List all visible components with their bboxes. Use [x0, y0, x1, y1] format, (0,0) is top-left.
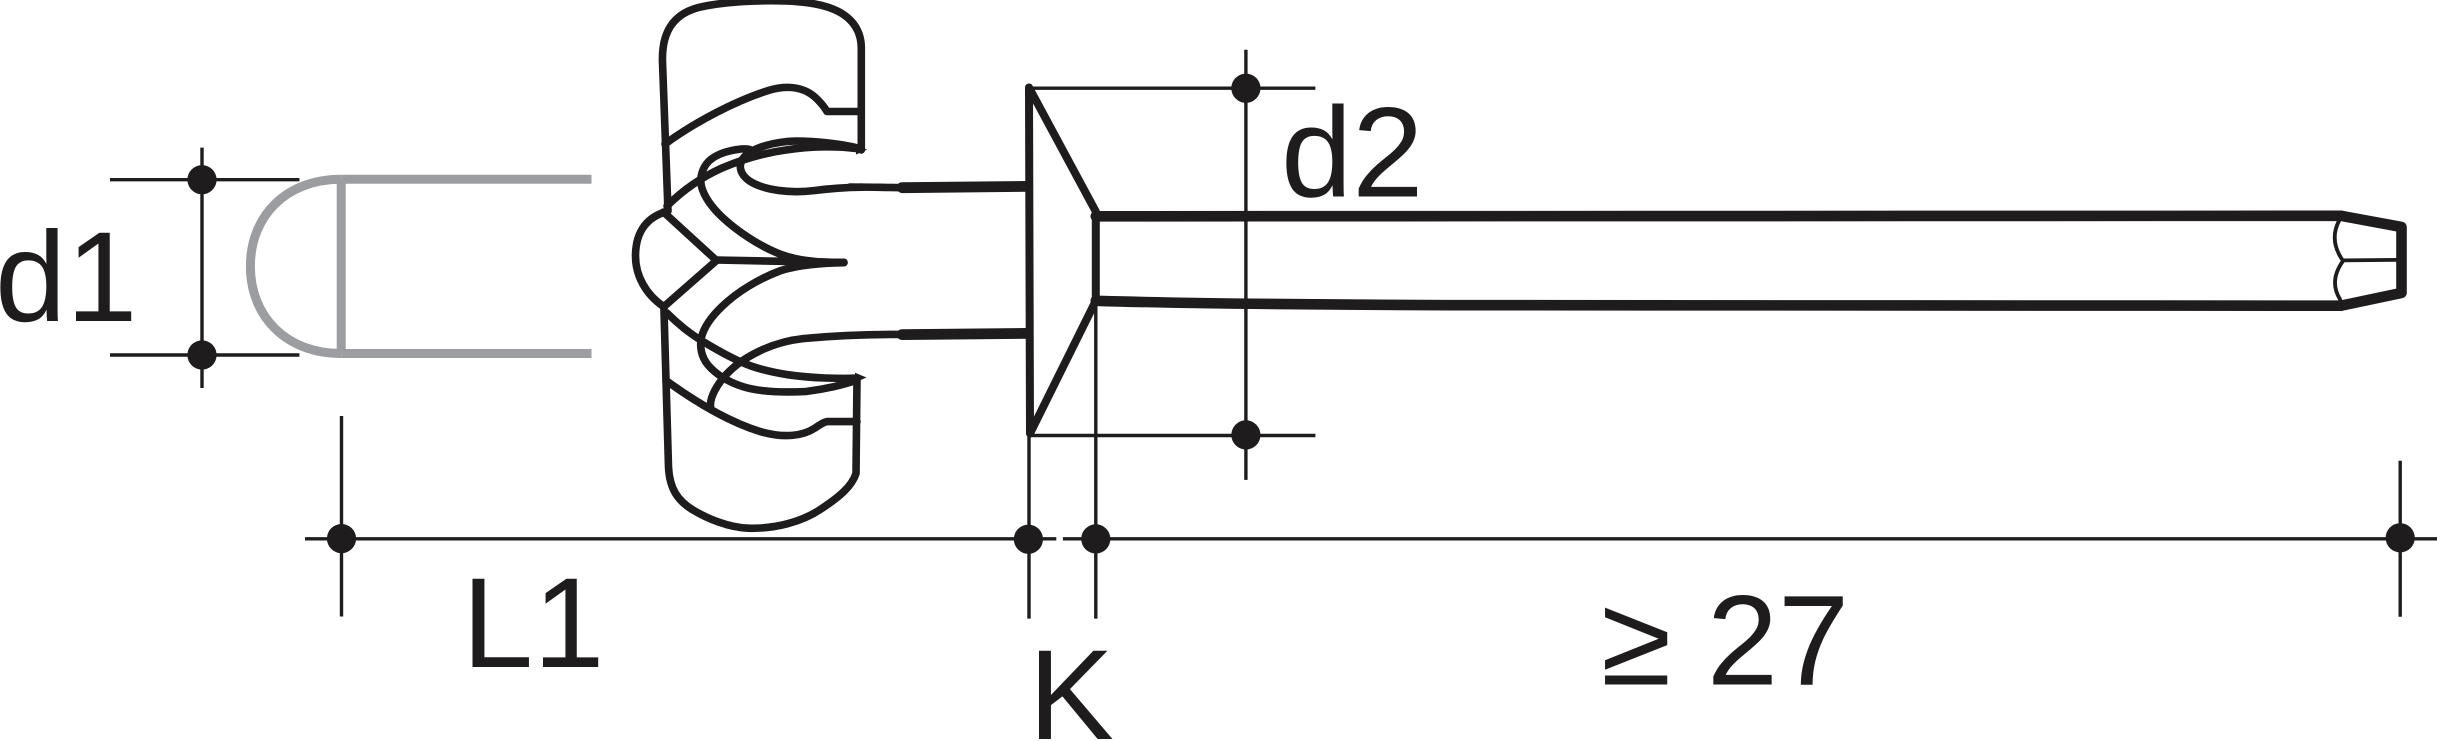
bottom lobe corner tip [855, 373, 867, 383]
bottom lobe inner boundary [666, 381, 857, 436]
center fold line [716, 260, 840, 262]
top lobe inner boundary [665, 87, 858, 144]
d2 dimension [1029, 50, 1315, 619]
d2 bottom dot [1231, 420, 1260, 449]
svg-text:d2: d2 [1281, 82, 1423, 225]
d1 bottom tick [110, 353, 299, 356]
mandrel tip break chevron [2335, 220, 2343, 299]
rivet head (countersunk) [1029, 88, 1096, 434]
K right dot [1081, 524, 1110, 553]
K left dot [1014, 525, 1043, 554]
center fold wedge tip [800, 258, 846, 267]
top lobe outer outline [662, 1, 861, 211]
L1 left extension vertical [340, 416, 343, 617]
d2 vertical dimension line [1244, 50, 1247, 480]
mandrel tip outline [2341, 216, 2402, 306]
shaft bottom line [902, 333, 1029, 334]
svg-text:d1: d1 [0, 206, 137, 349]
d1 dimension [110, 148, 299, 388]
left fold bump [636, 213, 664, 307]
d1 vertical dimension line [200, 148, 203, 388]
bottom wedge curl [701, 263, 856, 392]
gray body top line [341, 175, 591, 184]
upper slant to center junction [664, 212, 717, 261]
mandrel top line [1096, 211, 2341, 222]
svg-text:K: K [1029, 624, 1114, 741]
bottom dimension line [305, 416, 2437, 617]
top wedge curl [701, 149, 844, 263]
overall dimension line left segment [305, 537, 1056, 540]
bottom lobe outer outline [664, 308, 857, 529]
top lobe corner tip [856, 145, 867, 155]
head right extension line [1094, 305, 1097, 619]
mandrel tip mid line [2343, 258, 2397, 262]
lower slant to center junction [664, 261, 717, 308]
d1 bottom dot [187, 340, 216, 369]
bottom band boundary [667, 313, 856, 378]
set rivet body (black blob) [636, 1, 1029, 529]
L1 dot [327, 524, 356, 553]
gray body dome [250, 179, 341, 353]
right end extension vertical [2398, 461, 2401, 617]
top band upper boundary [667, 147, 856, 206]
top hairpin petal fold [740, 141, 862, 192]
gray body bottom line [341, 349, 591, 358]
head left extension line [1027, 424, 1030, 619]
svg-text:L1: L1 [462, 552, 604, 695]
d1 top dot [187, 165, 216, 194]
d2 top dot [1231, 74, 1260, 103]
d1 top tick [110, 178, 299, 181]
d2 top tick [1029, 86, 1315, 89]
d2 bottom tick [1029, 434, 1315, 437]
shaft top line [902, 186, 1029, 187]
mandrel bottom line [1096, 301, 2341, 306]
unset rivet body (gray) [250, 179, 591, 353]
right end dot [2386, 523, 2415, 552]
overall dimension line right segment [1063, 537, 2437, 540]
svg-text:≥ 27: ≥ 27 [1601, 570, 1849, 713]
gray body vertical junction [337, 179, 346, 353]
